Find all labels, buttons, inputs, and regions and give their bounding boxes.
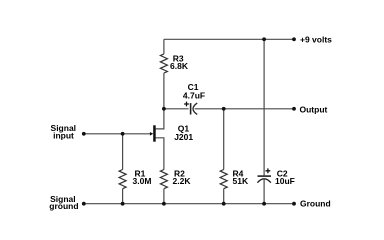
resistor R4 — [220, 170, 227, 189]
svg-text:10uF: 10uF — [275, 176, 295, 186]
node C2 ground junction — [262, 202, 266, 206]
resistor R3 — [160, 54, 167, 73]
wire signal input line — [84, 133, 153, 135]
svg-text:Ground: Ground — [300, 199, 331, 209]
transistor Q1 — [150, 125, 156, 141]
svg-text:2.2K: 2.2K — [173, 176, 192, 186]
node R2 ground junction — [162, 202, 166, 206]
svg-text:Output: Output — [300, 104, 328, 114]
svg-text:4.7uF: 4.7uF — [183, 90, 205, 100]
wire R4 top lead — [223, 109, 225, 170]
node signal-ground terminal — [82, 202, 86, 206]
svg-text:6.8K: 6.8K — [170, 61, 189, 71]
svg-text:51K: 51K — [233, 176, 249, 186]
node input terminal — [82, 132, 86, 136]
resistor R1 — [119, 170, 126, 189]
svg-text:ground: ground — [49, 201, 78, 211]
node R4 ground junction — [222, 202, 226, 206]
capacitor C2 — [257, 176, 271, 183]
resistor R2 — [160, 170, 167, 189]
node drain junction — [162, 107, 166, 111]
wire R3 top lead — [163, 39, 165, 54]
capacitor C1 — [191, 103, 198, 114]
wire C2 bottom lead — [263, 179, 265, 204]
svg-text:input: input — [53, 130, 74, 140]
node R4/output junction — [222, 107, 226, 111]
plus sign C2 — [266, 168, 271, 173]
wire R3 bottom lead — [163, 73, 165, 109]
svg-text:3.0M: 3.0M — [133, 176, 152, 186]
svg-text:+9 volts: +9 volts — [300, 35, 332, 45]
wire R1 top lead — [122, 134, 124, 170]
node +9V terminal — [292, 37, 296, 41]
wire R2 bottom lead — [163, 189, 165, 204]
wire ground rail — [84, 203, 294, 205]
wire Q1 source lead — [156, 138, 164, 170]
node dots — [82, 37, 296, 205]
svg-text:J201: J201 — [174, 132, 193, 142]
node R1/gate junction — [121, 132, 125, 136]
wire C2 top lead — [263, 39, 265, 175]
node C2 top junction — [262, 37, 266, 41]
node ground terminal — [292, 202, 296, 206]
wire Q1 drain lead — [156, 109, 164, 129]
node output terminal — [292, 107, 296, 111]
wire R4 bottom lead — [223, 189, 225, 204]
wire R1 bottom lead — [122, 189, 124, 204]
wire output line left segment — [164, 108, 189, 110]
plus sign C1 — [184, 102, 189, 107]
wire top rail +9V — [164, 38, 294, 40]
wire output line right segment — [195, 108, 294, 110]
node R1 ground junction — [121, 202, 125, 206]
